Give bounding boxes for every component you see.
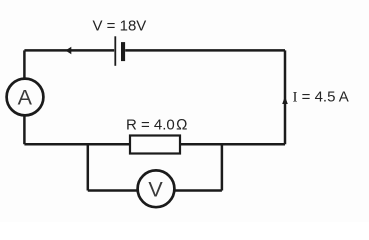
svg-text:V: V	[148, 178, 163, 202]
svg-text:R = 4.0 Ω: R = 4.0 Ω	[126, 116, 188, 133]
svg-text:I = 4.5 A: I = 4.5 A	[293, 89, 349, 106]
svg-text:A: A	[18, 86, 33, 110]
svg-text:V = 18V: V = 18V	[93, 17, 147, 34]
